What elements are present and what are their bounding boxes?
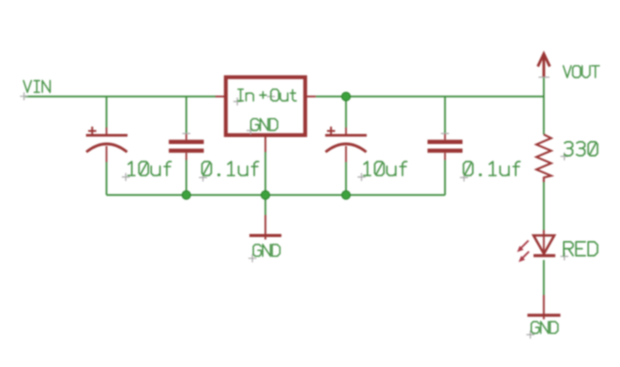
wire regulator GND pin to rail: [264, 152, 266, 195]
text plus_pin: [260, 92, 266, 99]
regulator In pin lead: [216, 96, 226, 98]
supply symbol VOUT arrow: [538, 54, 550, 77]
wire C2 vertical: [185, 97, 187, 196]
origin cross value 330: [560, 152, 568, 160]
text tenuf1: [128, 162, 171, 176]
origin cross value 0.1uf C4: [460, 174, 468, 182]
capacitor C1 top plate: [86, 134, 128, 137]
junction dot rail at C3: [342, 191, 350, 199]
junction dot top at C3: [342, 92, 351, 101]
wire bottom rail: [107, 194, 446, 196]
wire LED to GND symbol: [543, 260, 545, 295]
junction dot rail at C2: [182, 191, 190, 199]
LED D1 emission arrow 1: [518, 241, 529, 252]
origin cross VIN: [20, 92, 28, 100]
LED D1 emission arrow 2: [519, 252, 529, 262]
capacitor C3 pin leads: [345, 128, 347, 163]
capacitor C1 bottom arc: [86, 144, 127, 152]
LED D1 cathode bar: [534, 254, 556, 257]
origin cross pin Out: [267, 93, 275, 101]
capacitor C4 0.1uf plates: [428, 142, 463, 151]
wire regulator Out pin to VOUT corner: [316, 96, 544, 98]
regulator Out pin lead: [305, 96, 316, 98]
regulator GND pin lead: [264, 137, 266, 152]
junction dot rail at regulator GND: [261, 191, 269, 199]
origin cross value RED: [560, 252, 568, 260]
text GNDright: [531, 322, 558, 334]
wire C1 vertical: [106, 97, 108, 196]
capacitor C1 10uf polarized: plus sign: [88, 127, 96, 136]
capacitor C2 pin leads: [185, 134, 187, 161]
capacitor C3 10uf polarized: plus sign: [327, 127, 335, 136]
wire resistor to LED: [543, 182, 545, 230]
wire VOUT vertical: [543, 77, 545, 134]
origin cross pin In: [233, 98, 241, 106]
wire C4 vertical: [444, 97, 446, 196]
text GNDmid: [253, 245, 280, 257]
capacitor C3 bottom arc: [326, 144, 367, 152]
origin cross C2 top pin: [182, 133, 190, 135]
text RED: [564, 242, 598, 256]
origin cross value 10uf C3: [358, 173, 366, 181]
origin cross VOUT: [539, 76, 550, 78]
resistor R1 zigzag: [536, 135, 551, 183]
LED D1 triangle: [534, 235, 555, 253]
origin cross GND middle: [248, 254, 256, 262]
capacitor C2 0.1uf plates: [169, 142, 204, 151]
text r330: [564, 142, 597, 156]
ground symbol right: bar: [527, 314, 560, 317]
origin cross GND right: [526, 331, 534, 339]
origin cross value 0.1uf C2: [199, 174, 207, 182]
ground symbol middle: lead: [264, 215, 266, 240]
wire C3 vertical: [345, 97, 347, 196]
capacitor C4 pin leads: [444, 134, 446, 161]
text tenuf2: [364, 162, 407, 176]
origin cross pin GND box: [247, 127, 255, 135]
capacitor C3 top plate: [325, 134, 367, 137]
ground symbol right: lead: [543, 295, 545, 319]
text Out: [271, 89, 296, 101]
capacitor C1 pin leads: [106, 128, 108, 163]
text GNDbox: [251, 119, 278, 131]
origin cross value 10uf C1: [122, 173, 130, 181]
origin cross C4 top pin: [441, 133, 449, 135]
wire rail junction to GND symbol: [264, 195, 266, 215]
text VIN: [24, 81, 51, 93]
text p1uf2: [464, 162, 521, 176]
text In: [238, 89, 253, 101]
ground symbol middle: bar: [249, 234, 281, 237]
regulator U1 box: [226, 77, 305, 135]
LED D1 anode line: [543, 230, 545, 256]
text p1uf1: [202, 162, 259, 176]
text VOUT: [563, 66, 599, 78]
wire VIN to regulator In pin: [25, 96, 216, 98]
